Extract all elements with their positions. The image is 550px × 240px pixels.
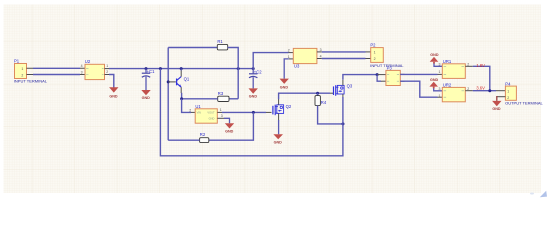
svg-text:1: 1 xyxy=(288,55,290,59)
wire P3 pin1 stub xyxy=(377,74,386,76)
svg-text:Q3: Q3 xyxy=(347,84,353,89)
junction Q1 base xyxy=(167,80,170,83)
svg-text:1: 1 xyxy=(439,94,441,98)
svg-text:1: 1 xyxy=(439,70,441,74)
ground (U2 pin2) xyxy=(109,87,118,98)
wire R2 branch down and left xyxy=(209,112,254,140)
ground (C1) xyxy=(141,90,150,100)
ground (U1 pin3) xyxy=(225,123,234,133)
GND power port (UR1) xyxy=(430,53,443,66)
wire feedback vertical (R1 left / Q1 base / R2 left) xyxy=(167,48,169,141)
svg-text:Q1: Q1 xyxy=(184,77,190,82)
ground (U3 pin1) xyxy=(280,79,289,90)
svg-text:GND: GND xyxy=(492,107,501,111)
svg-text:2: 2 xyxy=(374,57,376,61)
svg-text:3: 3 xyxy=(81,70,83,74)
regulator U1 xyxy=(189,104,223,123)
regulator UR1 xyxy=(439,59,470,79)
wire P1 pin2 to U2 pin3 xyxy=(33,74,80,76)
wire Q2 source to ground xyxy=(278,120,280,134)
connector P4 xyxy=(505,81,516,100)
wire R3 right xyxy=(229,98,238,100)
wire R3 left to emitter node xyxy=(182,98,218,100)
wire bottom loop xyxy=(160,69,343,156)
svg-text:UR2: UR2 xyxy=(443,83,452,88)
svg-text:Q2: Q2 xyxy=(286,104,292,109)
svg-text:GND: GND xyxy=(109,94,118,98)
svg-text:GND: GND xyxy=(280,85,289,89)
capacitor C1 xyxy=(142,69,155,90)
bridge U2 xyxy=(80,59,108,80)
wire R1 right down to bus and R3 xyxy=(228,48,239,99)
junction bus/bottom-loop xyxy=(159,67,162,70)
junction emitter/R3/U1 xyxy=(180,97,183,100)
wire main bus from U2 pin1 xyxy=(105,68,110,70)
junction P3 pins xyxy=(376,73,379,76)
svg-text:1: 1 xyxy=(507,90,509,94)
capacitor C2 xyxy=(249,69,262,89)
junction U1 out/R2 xyxy=(252,111,255,114)
svg-text:INPUT TERMINAL: INPUT TERMINAL xyxy=(14,79,48,84)
junction bus/C1 xyxy=(145,67,148,70)
svg-text:GND: GND xyxy=(430,78,439,82)
svg-text:1.8V: 1.8V xyxy=(476,63,485,68)
connector P3 xyxy=(386,66,400,86)
svg-text:2: 2 xyxy=(106,70,108,74)
svg-text:1: 1 xyxy=(220,108,222,112)
wire P1 pin1 to U2 pin4 xyxy=(33,67,80,69)
wire Q2 drain up and right to Q3 gate xyxy=(279,93,330,99)
svg-text:P2: P2 xyxy=(370,43,376,48)
svg-text:GND: GND xyxy=(225,129,234,133)
ground (C2) xyxy=(249,88,258,98)
wire P3 right stubs xyxy=(400,74,404,81)
svg-text:+C2: +C2 xyxy=(254,69,262,74)
wire U3 pin3 to P2 pin1 xyxy=(317,51,322,53)
svg-text:GND: GND xyxy=(249,94,258,98)
junction UR1/UR2 outputs xyxy=(488,89,491,92)
wire U2 pin2 to ground xyxy=(105,74,110,76)
svg-text:R1: R1 xyxy=(217,39,223,44)
svg-text:4: 4 xyxy=(81,64,83,68)
svg-text:1: 1 xyxy=(106,64,108,68)
junction R4/Q3 source xyxy=(342,122,345,125)
svg-text:1: 1 xyxy=(374,51,376,55)
wire Q1 emitter to junction xyxy=(181,93,183,99)
svg-text:3: 3 xyxy=(439,63,441,67)
wire P3 right top to UR1 pin1 xyxy=(400,73,437,75)
wire Q3 source down to bottom loop xyxy=(342,97,344,124)
svg-text:2: 2 xyxy=(21,73,23,77)
svg-text:GND: GND xyxy=(274,140,283,144)
svg-text:P1: P1 xyxy=(14,58,20,63)
regulator UR2 xyxy=(439,83,470,102)
wire R1 left xyxy=(168,47,217,49)
svg-text:R4: R4 xyxy=(321,100,327,105)
wire P3 right bottom to UR2 pin1 xyxy=(400,81,437,97)
wire U3 pin1 to ground xyxy=(289,58,294,60)
svg-text:R3: R3 xyxy=(218,91,224,96)
wire UR1 output 1.8V xyxy=(465,65,473,67)
connector P1 xyxy=(14,58,33,78)
resistor R4 xyxy=(315,93,327,105)
svg-text:2: 2 xyxy=(507,96,509,100)
wire bus up to U3 pin2 xyxy=(253,53,288,69)
svg-text:VOUT: VOUT xyxy=(207,111,215,115)
svg-text:R2: R2 xyxy=(200,132,206,137)
wire P4 pin2 to ground xyxy=(498,96,506,98)
junction bus/Q1 collector xyxy=(180,67,183,70)
resistor R2 xyxy=(200,132,209,142)
svg-text:1: 1 xyxy=(21,67,23,71)
wire emitter node to U1 pin2 xyxy=(182,99,191,113)
wire P3 pin2 L xyxy=(377,75,381,82)
resistor R1 xyxy=(217,39,227,50)
svg-text:GND: GND xyxy=(142,96,151,100)
svg-text:3: 3 xyxy=(439,87,441,91)
converter U3 xyxy=(288,48,322,68)
wire UR2 output 3.6V to P4 xyxy=(465,90,473,92)
svg-text:GND: GND xyxy=(209,117,215,121)
mosfet Q2 xyxy=(273,99,292,121)
svg-text:VIN: VIN xyxy=(197,111,201,115)
svg-text:+C1: +C1 xyxy=(147,69,155,74)
ground (Q2 source) xyxy=(273,134,283,144)
svg-text:3.6V: 3.6V xyxy=(476,85,485,90)
svg-text:OUTPUT TERMINAL: OUTPUT TERMINAL xyxy=(505,101,543,106)
junction bus end C2/U3 xyxy=(252,67,255,70)
connector P2 xyxy=(370,43,383,63)
resistor R3 xyxy=(218,91,229,102)
svg-text:GND: GND xyxy=(430,53,439,57)
cursor mark xyxy=(540,191,547,198)
wire U1 pin3 to ground xyxy=(217,117,224,119)
svg-text:2: 2 xyxy=(189,108,191,112)
transistor Q1 xyxy=(168,69,190,93)
svg-text:3: 3 xyxy=(221,114,223,118)
wire R2 left to feedback line xyxy=(168,139,199,141)
junction bus/R1-R3 vertical xyxy=(237,67,240,70)
svg-text:U1: U1 xyxy=(195,104,201,109)
svg-text:P3: P3 xyxy=(387,66,393,71)
junction R4 top xyxy=(316,92,319,95)
GND power port (UR2) xyxy=(429,78,442,91)
wire Q3 drain up to P3 xyxy=(343,75,377,80)
wire U3 pin4 to P2 pin2 xyxy=(317,58,322,60)
svg-text:U3: U3 xyxy=(294,63,300,68)
wire U1 pin1 output to Q2 gate xyxy=(217,111,222,113)
svg-text:UR1: UR1 xyxy=(443,59,452,64)
wire R4 bottom to Q3 source line xyxy=(318,106,343,124)
ground (P4 pin2) xyxy=(492,101,501,111)
svg-text:2: 2 xyxy=(288,49,290,53)
svg-text:U2: U2 xyxy=(85,59,91,64)
mosfet Q3 xyxy=(334,80,353,98)
